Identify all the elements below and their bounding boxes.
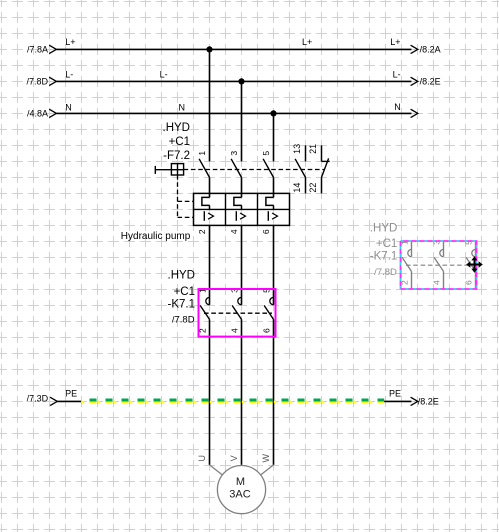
svg-text:4: 4: [229, 229, 239, 234]
svg-text:L+: L+: [302, 37, 312, 47]
svg-text:L-: L-: [393, 69, 401, 79]
overload housing divider vertical 2: [257, 193, 259, 225]
ghost contactor pole 2 lever: [434, 257, 443, 271]
svg-text:2: 2: [197, 229, 207, 234]
svg-text:-K7.1: -K7.1: [168, 299, 196, 311]
svg-text:/8.2E: /8.2E: [420, 76, 441, 86]
svg-text:N: N: [394, 102, 401, 112]
breaker F7.2 overload housing box: [194, 193, 290, 225]
overload housing divider vertical 1: [225, 193, 227, 225]
svg-text:22: 22: [308, 183, 318, 193]
wire PE black segment left: [57, 400, 81, 402]
svg-text:/7.8D: /7.8D: [172, 315, 195, 326]
thermal overload element pole 2: [234, 197, 242, 205]
ghost contactor pole 2 wire bottom: [443, 271, 445, 289]
contactor K7.1 pole 2 lever: [232, 305, 241, 319]
wire phase 3 from N to breaker: [273, 113, 275, 161]
junction node on N: [270, 110, 276, 116]
interruption point target arrow /8.2A: [411, 45, 418, 53]
svg-text:6: 6: [464, 280, 474, 285]
wire pole 1 breaker to contactor: [209, 225, 211, 304]
motor M1 circle: [217, 466, 265, 514]
svg-text:M: M: [236, 476, 245, 488]
breaker F7.2 pole 3 contact lever: [263, 159, 273, 178]
wire PE green-yellow conductor: [82, 401, 84, 403]
wire pole 3 lever to thermal element: [273, 177, 275, 197]
svg-text:/4.8A: /4.8A: [27, 109, 48, 119]
svg-text:6: 6: [261, 229, 271, 234]
interruption point target arrow /8.2E: [411, 77, 418, 85]
wire pole 2 lever to thermal element: [241, 177, 243, 197]
svg-text:/7.8A: /7.8A: [27, 45, 48, 55]
motor M1 terminal lead W: [260, 465, 273, 475]
svg-text:-K7.1: -K7.1: [370, 251, 398, 263]
selection highlight box (magenta) around K7.1: [199, 289, 276, 337]
svg-text:4: 4: [230, 328, 240, 333]
svg-text:U: U: [197, 455, 207, 462]
ghost contactor pole 1 wire top: [411, 241, 413, 257]
svg-text:.HYD: .HYD: [163, 122, 190, 134]
svg-text:.HYD: .HYD: [370, 223, 397, 235]
ghost contactor pole 2 fixed contact arc: [440, 249, 444, 256]
ghost contactor pole 3 wire top: [475, 241, 477, 257]
contactor K7.1 pole 3 lever: [264, 305, 273, 319]
svg-text:W: W: [261, 454, 271, 463]
magnetic trip symbol I> pole 3: [267, 211, 269, 221]
magnetic trip symbol I> pole 1: [203, 211, 205, 221]
svg-text:V: V: [229, 455, 239, 461]
interruption point source arrow /7.8A: [49, 45, 56, 53]
wire pole 2 contactor to motor: [241, 319, 243, 465]
ghost contactor pole 3 lever: [466, 257, 475, 271]
svg-text:/7.3D: /7.3D: [27, 393, 49, 403]
svg-text:/8.2A: /8.2A: [420, 45, 441, 55]
svg-text:N: N: [65, 103, 72, 113]
motor M1 terminal lead V: [241, 464, 243, 467]
svg-text:+C1: +C1: [376, 238, 397, 250]
ghost contactor pole 1 lever: [402, 257, 411, 271]
wire pole 2 breaker to contactor: [241, 225, 243, 304]
svg-text:/8.2E: /8.2E: [418, 396, 439, 406]
wire bus N: [56, 112, 411, 114]
wire phase 1 from L+ to breaker: [209, 49, 211, 161]
breaker F7.2 pole 1 contact lever: [199, 159, 209, 178]
breaker F7.2 operator box with cross: [171, 164, 183, 175]
wire pole 3 breaker to contactor: [273, 225, 275, 304]
aux contact 13/14 lever: [295, 159, 305, 178]
ghost contactor pole 1 fixed contact arc: [408, 249, 412, 256]
aux contact 21/22 wire bottom: [321, 177, 323, 193]
svg-text:N: N: [179, 103, 186, 113]
interruption point source arrow /4.8A: [49, 109, 56, 117]
contactor K7.1 pole 1 lever: [200, 305, 209, 319]
breaker F7.2 aux contact 13/14 wire top: [305, 145, 307, 161]
thermal overload element pole 1: [202, 197, 210, 205]
contactor K7.1 pole 2 fixed contact arc: [238, 297, 242, 304]
contactor K7.1 mechanical linkage dashed: [204, 312, 272, 314]
aux contact 13/14 wire bottom: [305, 177, 307, 193]
mechanical linkage dashed branch to magnetic row: [178, 216, 194, 218]
ghost contactor pole 3 fixed contact arc: [472, 249, 476, 256]
interruption point target arrow /8.2E (PE): [411, 397, 418, 405]
wire pole 3 contactor to motor: [273, 319, 275, 465]
ghost contactor pole 2 wire top: [443, 241, 445, 257]
mechanical linkage dashed line horizontal: [184, 169, 324, 171]
ghost contactor mechanical linkage dashed: [406, 264, 474, 266]
svg-text:1: 1: [197, 151, 207, 156]
svg-text:PE: PE: [389, 389, 401, 399]
breaker F7.2 aux contact 21/22 wire top: [321, 145, 323, 161]
wire bus L-: [56, 80, 411, 82]
ghost selection marching-ants border cyan: [401, 241, 477, 289]
contactor K7.1 pole 3 fixed contact arc: [270, 297, 274, 304]
breaker F7.2 manual operator T-handle: [154, 166, 156, 174]
svg-text:L-: L-: [65, 69, 73, 79]
breaker F7.2 pole 2 contact lever: [231, 159, 241, 178]
wire pole 1 lever to thermal element: [209, 177, 211, 197]
ghost contactor pole 1 wire bottom: [411, 271, 413, 289]
ghost selection marching-ants border magenta: [401, 241, 477, 289]
svg-text:13: 13: [292, 144, 302, 154]
junction node on L-: [238, 78, 244, 84]
overload housing divider horizontal: [194, 208, 290, 210]
junction node on L+: [206, 46, 212, 52]
wire pole 1 contactor to motor: [209, 319, 211, 465]
svg-text:/7.8D: /7.8D: [374, 267, 397, 278]
motor M1 terminal lead U: [210, 465, 223, 475]
svg-text:5: 5: [261, 151, 271, 156]
interruption point target arrow N right: [411, 109, 418, 117]
wire phase 2 from L- to breaker: [241, 81, 243, 161]
svg-text:+C1: +C1: [174, 286, 195, 298]
contactor K7.1 pole 1 fixed contact arc: [206, 297, 210, 304]
svg-text:3: 3: [229, 151, 239, 156]
thermal overload element pole 3: [266, 197, 274, 205]
svg-text:L+: L+: [390, 37, 400, 47]
ghost contactor pole 3 wire bottom: [475, 271, 477, 289]
svg-text:-F7.2: -F7.2: [163, 150, 190, 162]
wire PE black segment right: [384, 400, 411, 402]
mechanical linkage dashed branch to thermal row: [178, 200, 194, 202]
svg-text:6: 6: [262, 328, 272, 333]
svg-text:+C1: +C1: [169, 136, 190, 148]
svg-text:L+: L+: [65, 37, 75, 47]
mechanical linkage dashed vertical to overload box: [177, 175, 179, 217]
svg-text:14: 14: [292, 183, 302, 193]
aux contact 21/22 lever: [322, 158, 329, 177]
svg-text:3AC: 3AC: [229, 488, 250, 500]
aux contact 21/22 NC tick: [322, 160, 330, 162]
svg-text:PE: PE: [65, 388, 77, 398]
wire bus L+: [56, 48, 411, 50]
svg-text:L-: L-: [160, 69, 168, 79]
interruption point source arrow /7.8D: [49, 77, 56, 85]
move cursor (4-way arrow): [466, 256, 483, 273]
svg-text:Hydraulic pump: Hydraulic pump: [121, 231, 191, 242]
svg-text:.HYD: .HYD: [168, 269, 195, 281]
svg-text:4: 4: [432, 280, 442, 285]
svg-text:/7.8D: /7.8D: [26, 77, 48, 87]
magnetic trip symbol I> pole 2: [235, 211, 237, 221]
svg-text:21: 21: [308, 144, 318, 154]
